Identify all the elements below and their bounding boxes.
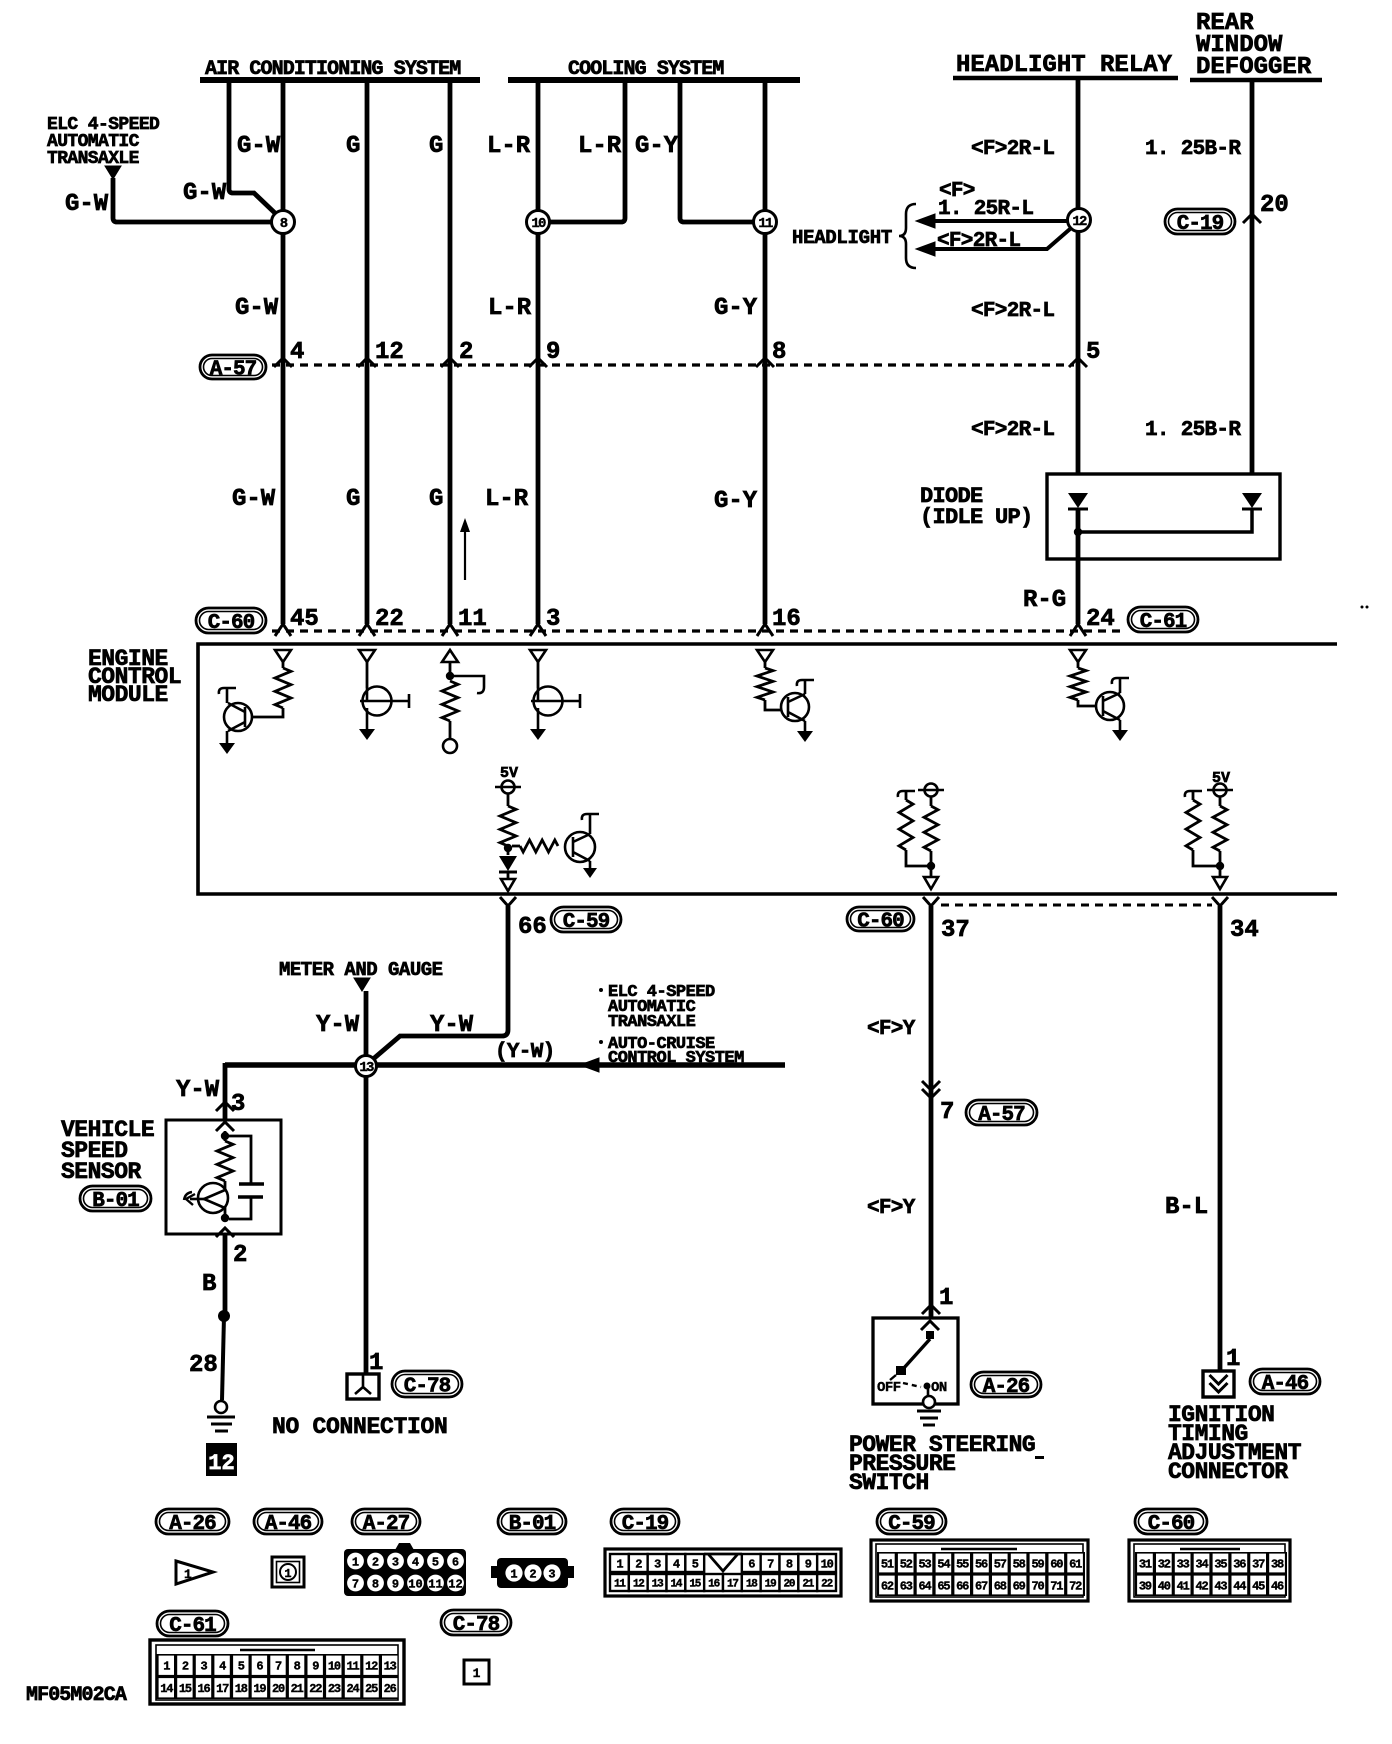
svg-text:5: 5 — [238, 1660, 245, 1674]
svg-text:4: 4 — [290, 339, 304, 366]
ECM base resistor to Q66 — [512, 840, 558, 852]
svg-text:2: 2 — [459, 339, 473, 366]
ECM pin16 input triangle — [757, 650, 773, 662]
ECM pin22 input triangle — [359, 650, 375, 662]
svg-text:64: 64 — [919, 1579, 932, 1593]
ECM pin11 pullup network — [442, 662, 484, 753]
svg-text:63: 63 — [900, 1579, 913, 1593]
svg-text:7: 7 — [767, 1557, 774, 1571]
ground symbol — [207, 1401, 235, 1431]
junction 11 — [754, 211, 777, 234]
svg-text:G: G — [429, 486, 443, 513]
ECM pin45 input triangle — [275, 650, 291, 662]
VSS transistor — [184, 1183, 228, 1213]
ECM pullup pair 37 — [898, 784, 944, 878]
svg-text:G: G — [346, 486, 360, 513]
wire Y-W horizontal — [225, 1062, 785, 1068]
capsule C-60 bottom — [1135, 1509, 1207, 1536]
svg-text:DEFOGGER: DEFOGGER — [1196, 54, 1312, 81]
svg-text:10: 10 — [821, 1557, 834, 1571]
svg-text:5: 5 — [1086, 339, 1100, 366]
svg-text:L-R: L-R — [578, 133, 622, 160]
engine control module box — [198, 644, 1337, 894]
svg-text:10: 10 — [408, 1578, 422, 1592]
junction 13 — [356, 1056, 377, 1077]
svg-text:L-R: L-R — [487, 133, 531, 160]
ground point 12 — [206, 1443, 237, 1476]
svg-text:(Y-W): (Y-W) — [495, 1041, 555, 1064]
svg-text:9: 9 — [392, 1578, 399, 1592]
svg-text:11: 11 — [758, 216, 773, 232]
svg-text:(IDLE UP): (IDLE UP) — [920, 505, 1033, 530]
capsule A-57 lower — [966, 1100, 1037, 1127]
svg-text:12: 12 — [633, 1578, 644, 1590]
svg-text:1: 1 — [184, 1567, 192, 1582]
svg-text:13: 13 — [359, 1060, 374, 1076]
svg-text:42: 42 — [1196, 1579, 1209, 1593]
ECM pin24 input triangle — [1070, 650, 1086, 662]
svg-text:44: 44 — [1233, 1579, 1246, 1593]
svg-text:G-Y: G-Y — [714, 488, 758, 515]
svg-text:A-46: A-46 — [265, 1513, 312, 1536]
connector C-60 drawing — [1129, 1540, 1290, 1601]
connector C-19 crossing — [1243, 192, 1289, 223]
svg-text:22: 22 — [309, 1682, 322, 1696]
ECM output triangle 66 — [501, 879, 515, 891]
svg-text:51: 51 — [881, 1557, 894, 1571]
svg-text:22: 22 — [375, 606, 404, 633]
svg-text:12: 12 — [375, 339, 404, 366]
svg-text:37: 37 — [941, 917, 970, 944]
pin 66 terminal — [500, 897, 547, 941]
svg-text:24: 24 — [1086, 606, 1115, 633]
capsule B-01 bottom — [498, 1509, 566, 1536]
svg-text:CONTROL SYSTEM: CONTROL SYSTEM — [608, 1049, 744, 1068]
wire G-Y branch (cooling bar, bends right into junction 11) — [680, 80, 754, 222]
svg-text:1: 1 — [616, 1557, 623, 1571]
svg-text:<F>Y: <F>Y — [867, 1018, 916, 1041]
header HEADLIGHT RELAY — [953, 52, 1178, 79]
svg-text:18: 18 — [746, 1578, 758, 1590]
wire L-R (cooling bar to pin 3) — [536, 80, 541, 211]
svg-text:6: 6 — [452, 1556, 459, 1570]
wire inside diode box — [1078, 509, 1252, 532]
ON contact — [924, 1383, 931, 1397]
diode left — [1068, 493, 1088, 509]
connector C-19 drawing — [605, 1549, 841, 1596]
capsule C-78 — [392, 1371, 462, 1399]
svg-text:65: 65 — [937, 1579, 950, 1593]
svg-text:1: 1 — [284, 1567, 291, 1581]
wire G-W main (A/C bar to pin 45) — [281, 80, 286, 211]
wire meter and gauge — [364, 991, 369, 1056]
svg-text:CONNECTOR: CONNECTOR — [1168, 1459, 1288, 1485]
svg-text:19: 19 — [765, 1578, 776, 1590]
svg-text:22: 22 — [821, 1578, 832, 1590]
svg-text:20: 20 — [272, 1682, 285, 1696]
ECM 5V supply left — [495, 765, 521, 806]
capsule A-26 bottom — [156, 1509, 229, 1536]
svg-text:9: 9 — [312, 1660, 319, 1674]
svg-text:45: 45 — [1252, 1579, 1265, 1593]
wire G-Y main (cooling bar to pin 16) — [763, 80, 768, 211]
stray dots — [1361, 606, 1364, 609]
svg-text:C-19: C-19 — [622, 1513, 669, 1536]
terminal C-78 — [347, 1374, 379, 1399]
VSS capacitor branch — [225, 1136, 264, 1219]
svg-text:1: 1 — [1226, 1346, 1240, 1373]
arrow from ELC transaxle — [105, 166, 121, 179]
terminal A-46 — [1203, 1371, 1234, 1397]
svg-text:MF05M02CA: MF05M02CA — [26, 1684, 127, 1707]
svg-text:Y-W: Y-W — [176, 1077, 220, 1104]
svg-text:34: 34 — [1196, 1557, 1209, 1571]
svg-text:17: 17 — [727, 1578, 738, 1590]
svg-text:TRANSAXLE: TRANSAXLE — [608, 1013, 696, 1032]
header AIR CONDITIONING SYSTEM — [200, 58, 480, 81]
pin 16 — [757, 606, 801, 636]
svg-text:16: 16 — [772, 606, 801, 633]
svg-text:L-R: L-R — [485, 486, 529, 513]
svg-text:G-W: G-W — [237, 133, 281, 160]
svg-text:1: 1 — [163, 1660, 170, 1674]
svg-text:C-61: C-61 — [169, 1615, 216, 1638]
svg-text:20: 20 — [1260, 192, 1289, 219]
power steering switch box — [873, 1318, 958, 1404]
svg-text:C-59: C-59 — [888, 1513, 935, 1536]
svg-text:A-26: A-26 — [983, 1376, 1030, 1399]
label DIODE (IDLE UP) — [920, 484, 1033, 530]
svg-text:12: 12 — [208, 1451, 234, 1476]
capsule B-01 — [80, 1186, 151, 1213]
wire G (A/C bar to pin 22) — [365, 80, 370, 624]
svg-text:13: 13 — [652, 1578, 664, 1590]
ECM resistor R66 — [500, 806, 516, 846]
svg-text:1. 25B-R: 1. 25B-R — [1145, 138, 1241, 161]
wire Y-W from pin 66 — [372, 906, 508, 1060]
svg-text:G-W: G-W — [183, 180, 227, 207]
svg-text:54: 54 — [937, 1557, 950, 1571]
svg-text:G-W: G-W — [65, 191, 109, 218]
wire G-W branch (from A/C bar, bends to junction 8) — [229, 80, 276, 214]
svg-text:4: 4 — [412, 1556, 419, 1570]
svg-text:3: 3 — [548, 1568, 555, 1582]
svg-text:B-01: B-01 — [92, 1190, 139, 1213]
label POWER STEERING PRESSURE SWITCH — [849, 1432, 1035, 1496]
svg-text:HEADLIGHT: HEADLIGHT — [792, 227, 892, 249]
svg-text:35: 35 — [1214, 1557, 1227, 1571]
label IGNITION TIMING ADJUSTMENT CONNECTOR — [1168, 1402, 1302, 1485]
svg-text:3: 3 — [201, 1660, 208, 1674]
VSS exit chevron pin 2 — [216, 1228, 247, 1269]
capsule A-46 bottom — [254, 1509, 322, 1536]
svg-text:32: 32 — [1158, 1557, 1171, 1571]
svg-text:70: 70 — [1031, 1579, 1044, 1593]
wire L-R branch (cooling bar, bends left into junction 10) — [550, 80, 625, 222]
svg-text:9: 9 — [805, 1557, 812, 1571]
svg-text:2: 2 — [182, 1660, 189, 1674]
pin 5 — [1069, 339, 1100, 367]
svg-text:7: 7 — [275, 1660, 282, 1674]
pin 1 chevron — [922, 1285, 953, 1314]
svg-text:4: 4 — [219, 1660, 226, 1674]
svg-text:1: 1 — [939, 1285, 953, 1312]
svg-text:3: 3 — [392, 1556, 399, 1570]
svg-text:53: 53 — [919, 1557, 932, 1571]
svg-text:C-60: C-60 — [208, 612, 255, 635]
pin 9 — [529, 339, 560, 367]
headlight arrow 1 — [916, 214, 1067, 228]
svg-text:<F>2R-L: <F>2R-L — [971, 138, 1054, 161]
svg-text:NO CONNECTION: NO CONNECTION — [272, 1414, 448, 1440]
svg-text:6: 6 — [256, 1660, 263, 1674]
svg-text:17: 17 — [216, 1682, 229, 1696]
ECM transistor Q45 — [219, 688, 252, 754]
svg-text:71: 71 — [1050, 1579, 1063, 1593]
svg-text:66: 66 — [956, 1579, 969, 1593]
ECM output triangle 34 — [1213, 877, 1227, 889]
svg-text:14: 14 — [160, 1682, 173, 1696]
ECM pin3 input triangle — [530, 650, 546, 662]
label VEHICLE SPEED SENSOR — [61, 1117, 154, 1185]
ECM transistor Q22 — [359, 662, 409, 740]
direction arrow up beside wire — [460, 518, 470, 580]
wire <F>Y down — [929, 906, 934, 1318]
capsule C-61 — [1128, 607, 1198, 634]
note ELC 4-SPEED AUTOMATIC TRANSAXLE — [47, 115, 160, 169]
splice dot — [218, 1310, 230, 1322]
capsule A-57 — [200, 355, 266, 382]
svg-text:8: 8 — [372, 1578, 379, 1592]
svg-text:1: 1 — [510, 1568, 517, 1582]
svg-text:11: 11 — [346, 1660, 359, 1674]
svg-text:46: 46 — [1271, 1579, 1284, 1593]
svg-text:1: 1 — [352, 1556, 359, 1570]
svg-text:8: 8 — [786, 1557, 793, 1571]
connector A-26 drawing — [176, 1561, 213, 1584]
svg-text:8: 8 — [294, 1660, 301, 1674]
svg-text:1: 1 — [473, 1666, 481, 1681]
svg-text:62: 62 — [881, 1579, 894, 1593]
connector C-59 drawing — [871, 1540, 1088, 1601]
svg-text:10: 10 — [531, 216, 546, 232]
wire B-L down — [1218, 906, 1223, 1371]
pin 8 — [756, 339, 786, 367]
svg-text:21: 21 — [802, 1578, 814, 1590]
pin 2 — [441, 339, 473, 367]
VSS entry chevron — [216, 1122, 234, 1131]
ECM pin24 resistor — [1070, 662, 1096, 706]
svg-text:39: 39 — [1139, 1579, 1152, 1593]
capsule C-61 bottom — [157, 1611, 228, 1638]
bullet note ELC/auto-cruise — [599, 983, 744, 1068]
svg-text:12: 12 — [365, 1660, 378, 1674]
pin 34 terminal — [1212, 897, 1259, 944]
svg-text:11: 11 — [458, 606, 487, 633]
svg-text:20: 20 — [784, 1578, 795, 1590]
svg-text:19: 19 — [253, 1682, 266, 1696]
svg-text:A-27: A-27 — [363, 1513, 410, 1536]
capsule C-60 — [196, 608, 266, 635]
brace — [899, 204, 916, 268]
arrow on Y-W wire — [580, 1058, 599, 1072]
ECM pin45 resistor — [252, 662, 291, 717]
svg-text:2: 2 — [372, 1556, 379, 1570]
svg-text:6: 6 — [748, 1557, 755, 1571]
dashed lever arc — [903, 1383, 921, 1387]
svg-text:37: 37 — [1252, 1557, 1265, 1571]
svg-text:16: 16 — [198, 1682, 211, 1696]
svg-text:G-W: G-W — [235, 295, 279, 322]
svg-text:67: 67 — [975, 1579, 988, 1593]
wire Y-W down to VSS — [223, 1063, 228, 1120]
svg-text:A-46: A-46 — [1262, 1373, 1309, 1396]
wire B to ground — [223, 1234, 228, 1316]
capsule C-19 — [1165, 209, 1235, 236]
wire to ground — [222, 1316, 224, 1400]
svg-text:40: 40 — [1158, 1579, 1171, 1593]
ECM pullup pair 34 — [1185, 770, 1233, 877]
svg-text:45: 45 — [290, 606, 319, 633]
svg-text:5: 5 — [692, 1557, 699, 1571]
VSS internal wire — [217, 1131, 233, 1222]
svg-text:12: 12 — [1072, 214, 1087, 230]
wire rear defogger 1.25B-R — [1250, 80, 1255, 474]
stray mark — [1035, 1456, 1044, 1459]
svg-text:B-L: B-L — [1165, 1194, 1208, 1221]
connector line C-60/C-61 — [272, 629, 1120, 632]
ECM transistor Q66 — [565, 814, 599, 878]
wire R-G to pin 24 — [1076, 509, 1081, 624]
svg-text:TRANSAXLE: TRANSAXLE — [47, 149, 140, 169]
svg-text:26: 26 — [384, 1682, 397, 1696]
svg-text:A-57: A-57 — [978, 1104, 1025, 1127]
svg-text:69: 69 — [1013, 1579, 1026, 1593]
ECM pin16 resistor — [757, 662, 781, 710]
svg-text:SWITCH: SWITCH — [849, 1470, 929, 1496]
connector A-27 drawing — [344, 1543, 466, 1596]
headlight arrow 2 — [916, 229, 1070, 256]
connector line A-57 — [272, 363, 1074, 366]
svg-text:25: 25 — [365, 1682, 378, 1696]
diode (idle up) box — [1047, 474, 1280, 559]
svg-text:Y-W: Y-W — [430, 1012, 474, 1039]
svg-text:2: 2 — [635, 1557, 642, 1571]
capsule A-46 — [1250, 1369, 1320, 1396]
svg-text:41: 41 — [1177, 1579, 1190, 1593]
svg-text:31: 31 — [1139, 1557, 1152, 1571]
svg-text:3: 3 — [231, 1091, 245, 1118]
svg-text:10: 10 — [328, 1660, 341, 1674]
svg-text:36: 36 — [1233, 1557, 1246, 1571]
vehicle speed sensor box — [166, 1120, 281, 1234]
pin 12 — [358, 339, 404, 367]
wire headlight relay (to pin 24) — [1076, 78, 1081, 209]
capsule C-78 bottom — [441, 1610, 511, 1637]
svg-text:3: 3 — [654, 1557, 661, 1571]
svg-text:59: 59 — [1031, 1557, 1044, 1571]
svg-text:52: 52 — [900, 1557, 913, 1571]
arrow to meter and gauge — [354, 978, 370, 991]
svg-text:43: 43 — [1214, 1579, 1227, 1593]
capsule C-59 bottom — [877, 1509, 946, 1536]
wire meter continues down — [364, 1076, 369, 1374]
ECM transistor Q24 — [1096, 678, 1129, 741]
svg-text:23: 23 — [328, 1682, 341, 1696]
svg-text:C-59: C-59 — [563, 911, 610, 934]
dashed connector line C-60 lower — [941, 904, 1212, 907]
svg-text:58: 58 — [1013, 1557, 1026, 1571]
diode right — [1242, 493, 1262, 509]
ECM transistor Q16 — [781, 680, 814, 742]
svg-text:HEADLIGHT RELAY: HEADLIGHT RELAY — [956, 52, 1173, 79]
svg-text:Y-W: Y-W — [316, 1012, 360, 1039]
svg-text:2: 2 — [233, 1242, 247, 1269]
svg-text:18: 18 — [235, 1682, 248, 1696]
svg-text:1. 25R-L: 1. 25R-L — [938, 198, 1033, 221]
svg-text:12: 12 — [448, 1578, 462, 1592]
svg-text:C-60: C-60 — [1148, 1513, 1195, 1536]
svg-text:<F>Y: <F>Y — [867, 1197, 916, 1220]
svg-text:15: 15 — [179, 1682, 192, 1696]
svg-text:C-78: C-78 — [404, 1376, 451, 1399]
svg-text:L-R: L-R — [488, 295, 532, 322]
svg-text:C-19: C-19 — [1177, 213, 1224, 236]
pin 22 — [359, 606, 404, 636]
svg-text:55: 55 — [956, 1557, 969, 1571]
svg-text:11: 11 — [614, 1578, 626, 1590]
svg-text:<F>2R-L: <F>2R-L — [937, 230, 1020, 253]
capsule A-26 — [971, 1372, 1041, 1399]
pin 3 chevron — [216, 1091, 245, 1118]
wire G-W horizontal to junction 8 — [113, 178, 272, 222]
svg-text:72: 72 — [1069, 1579, 1082, 1593]
svg-text:MODULE: MODULE — [88, 682, 168, 708]
svg-text:G: G — [429, 133, 443, 160]
capsule C-59 — [551, 907, 621, 934]
svg-text:C-61: C-61 — [1140, 611, 1187, 634]
connector C-61 drawing — [150, 1640, 404, 1704]
svg-text:13: 13 — [384, 1660, 397, 1674]
svg-text:57: 57 — [994, 1557, 1007, 1571]
junction 8 — [272, 211, 295, 234]
wire G (A/C bar to pin 11) — [448, 80, 453, 624]
svg-text:1. 25B-R: 1. 25B-R — [1145, 419, 1241, 442]
svg-text:61: 61 — [1069, 1557, 1082, 1571]
svg-text:68: 68 — [994, 1579, 1007, 1593]
svg-text:14: 14 — [671, 1578, 683, 1590]
svg-text:R-G: R-G — [1023, 587, 1066, 614]
svg-text:OFF: OFF — [877, 1380, 901, 1396]
svg-text:38: 38 — [1271, 1557, 1284, 1571]
connector A-46 drawing — [272, 1557, 304, 1587]
svg-text:<F>2R-L: <F>2R-L — [971, 419, 1054, 442]
svg-text:ON: ON — [931, 1380, 947, 1396]
svg-text:21: 21 — [291, 1682, 304, 1696]
ECM transistor Q3 — [530, 662, 580, 740]
svg-text:A-57: A-57 — [210, 359, 257, 382]
svg-text:G-Y: G-Y — [714, 295, 758, 322]
ECM pin11 output triangle — [442, 650, 458, 662]
ECM output triangle 37 — [924, 877, 938, 889]
capsule A-27 bottom — [352, 1509, 420, 1536]
capsule C-60 lower — [847, 907, 914, 934]
label ENGINE CONTROL MODULE — [88, 646, 181, 708]
svg-text:A-26: A-26 — [169, 1513, 216, 1536]
svg-text:G: G — [346, 133, 360, 160]
svg-text:15: 15 — [689, 1578, 701, 1590]
pin 4 — [274, 339, 304, 367]
